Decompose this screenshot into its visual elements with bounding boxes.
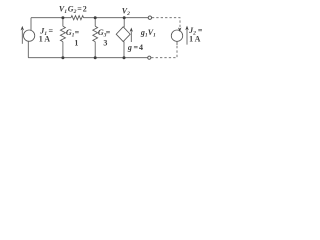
svg-text:=: = <box>75 28 80 37</box>
svg-text:=: = <box>106 28 111 37</box>
svg-text:V2: V2 <box>122 6 130 17</box>
svg-text:V1: V1 <box>59 5 67 16</box>
svg-text:2: 2 <box>83 5 87 14</box>
svg-text:3: 3 <box>103 38 107 47</box>
svg-text:4: 4 <box>139 43 143 52</box>
svg-text:1 A: 1 A <box>39 34 51 43</box>
svg-text:g1V1: g1V1 <box>140 28 156 39</box>
svg-text:g: g <box>127 43 132 52</box>
svg-text:=: = <box>77 5 82 14</box>
svg-text:=: = <box>134 43 139 52</box>
svg-text:1 A: 1 A <box>189 35 201 44</box>
svg-text:G2: G2 <box>68 5 77 16</box>
svg-text:G1: G1 <box>66 28 75 39</box>
svg-text:1: 1 <box>74 38 78 47</box>
